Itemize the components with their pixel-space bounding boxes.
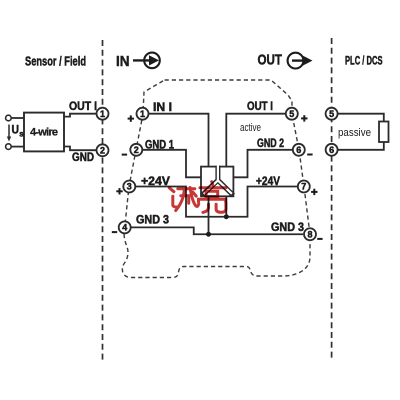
wire: GND 3 rail terminals 4 and 8 (132, 227, 304, 234)
terminal 2 (130, 144, 142, 156)
terminal 3 (123, 181, 135, 193)
svg-text:1: 1 (100, 109, 105, 119)
wire: isolator power stub to +24V rail (225, 196, 227, 216)
svg-text:GND 2: GND 2 (257, 138, 284, 150)
wire: isolator to OUT I terminal 5 (226, 114, 285, 167)
svg-text:4: 4 (122, 223, 127, 233)
svg-text:s: s (19, 130, 24, 139)
wire: isolator ground stub to GND 3 rail (208, 196, 210, 234)
svg-text:4-wire: 4-wire (30, 127, 58, 139)
svg-text:IN: IN (116, 53, 130, 70)
svg-text:1: 1 (140, 109, 145, 119)
polarity - terminal 8 (317, 238, 322, 240)
red watermark (169, 182, 226, 213)
resistor: PLC passive load (379, 122, 389, 143)
terminal 7 (298, 181, 310, 193)
wire: sensor GND to terminal 2 (64, 147, 96, 151)
svg-text:5: 5 (289, 109, 294, 119)
polarity + terminal 5 (301, 115, 307, 121)
module dashed outline (122, 80, 310, 278)
sensor source node + (6, 115, 12, 121)
svg-text:passive: passive (338, 127, 371, 139)
svg-text:OUT I: OUT I (247, 101, 273, 113)
Us voltage arrow (8, 125, 10, 138)
svg-text:8: 8 (307, 229, 312, 239)
PLC/DCS separator dashed line (331, 38, 333, 359)
svg-text:OUT I: OUT I (69, 101, 97, 113)
svg-text:+24V: +24V (141, 176, 170, 188)
svg-text:2: 2 (134, 145, 139, 155)
wire: sensor OUT I to terminal 1 (64, 114, 96, 117)
svg-text:IN I: IN I (153, 102, 172, 114)
terminal 1 (137, 108, 149, 120)
polarity - terminal 4 (112, 231, 117, 233)
polarity + terminal 1 (128, 115, 134, 121)
svg-text:3: 3 (127, 182, 132, 192)
polarity + terminal 3 (116, 188, 122, 194)
svg-text:Sensor / Field: Sensor / Field (25, 54, 86, 69)
polarity + terminal 7 (311, 189, 317, 195)
polarity - terminal 2 (122, 154, 127, 156)
polarity - terminal 6 (307, 154, 312, 156)
svg-text:OUT: OUT (258, 51, 283, 68)
svg-text:7: 7 (301, 182, 306, 192)
terminal S2 (97, 144, 109, 156)
svg-text:PLC / DCS: PLC / DCS (345, 54, 383, 68)
OUT direction icon (288, 53, 304, 69)
wire: +24V rail terminals 3 and 7 (136, 187, 297, 217)
wire: IN I terminal 1 to isolator (149, 114, 209, 167)
sensor/field separator dashed line (102, 40, 104, 360)
terminal 5 (286, 108, 298, 120)
wire: source circle 2 to 4-wire box (11, 146, 24, 148)
wire: PLC terminal 5 to load (338, 114, 384, 122)
svg-text:2: 2 (100, 146, 105, 156)
svg-text:GND 1: GND 1 (145, 139, 174, 151)
junction +24V (224, 214, 229, 219)
terminal P6 (326, 144, 338, 156)
junction GND3 (206, 232, 211, 237)
isolator U1 body (201, 167, 233, 197)
svg-text:5: 5 (329, 109, 334, 119)
terminal 4 (119, 221, 131, 233)
svg-text:6: 6 (296, 145, 301, 155)
svg-text:GND 3: GND 3 (271, 222, 304, 234)
wire: load to PLC terminal 6 (338, 142, 384, 150)
wire: isolator right to GND 2 terminal 6 (233, 150, 292, 178)
sensor source node - (6, 144, 12, 150)
wire: source circle 1 to 4-wire box (11, 117, 24, 119)
svg-text:GND 3: GND 3 (136, 215, 169, 227)
wire: GND 1 terminal 2 to isolator left (143, 150, 201, 178)
svg-text:active: active (240, 122, 261, 134)
svg-text:GND: GND (72, 152, 94, 164)
IN direction icon (144, 53, 160, 69)
svg-text:U: U (12, 125, 20, 137)
terminal P5 (326, 108, 338, 120)
svg-text:6: 6 (329, 145, 334, 155)
svg-text:+24V: +24V (256, 176, 280, 188)
terminal 8 (304, 228, 316, 240)
terminal S1 (97, 108, 109, 120)
4-wire transmitter box (24, 113, 64, 152)
terminal 6 (293, 144, 305, 156)
isolator isolation barrier (inverted-Y double line) (202, 166, 233, 196)
